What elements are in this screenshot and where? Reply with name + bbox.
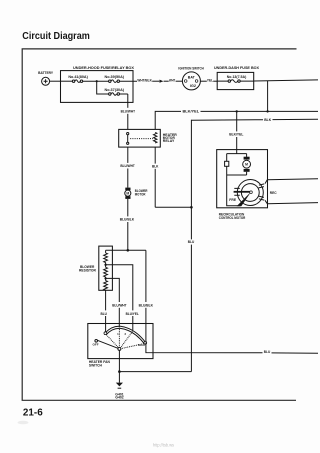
svg-text:BLK/YEL: BLK/YEL: [183, 108, 200, 113]
OFF contact: [95, 340, 98, 343]
relay dashed link: [130, 138, 153, 140]
wire recirc upper exit: [265, 179, 318, 184]
wire BLU/WHT drop to relay: [127, 94, 129, 129]
wire BLK/YEL drop to recirc: [236, 111, 238, 153]
label BLU on vertical: [187, 239, 195, 244]
junction tap2: [104, 277, 106, 279]
resistor R2: [104, 267, 108, 277]
resistor box: [99, 246, 113, 290]
recirc switch outer: [237, 180, 263, 206]
svg-text:BLU/YEL: BLU/YEL: [126, 311, 140, 316]
svg-text:BLU/WHT: BLU/WHT: [120, 163, 135, 168]
fuse No.13(7.5A): [217, 74, 254, 82]
wire relay out down: [127, 147, 129, 188]
svg-text:BLU/WHT: BLU/WHT: [121, 109, 136, 114]
svg-text:YEL: YEL: [207, 78, 214, 83]
svg-text:BLU: BLU: [264, 349, 271, 354]
svg-text:No.39(50A): No.39(50A): [105, 74, 125, 79]
svg-text:WHT: WHT: [169, 78, 176, 83]
dashed ray to colA: [106, 335, 118, 348]
svg-text:No.41(80A): No.41(80A): [68, 74, 88, 79]
contact ticks lower: [259, 196, 265, 200]
switch arc band: [105, 326, 145, 342]
label BLK/YEL: [229, 131, 244, 137]
resistor R3: [104, 281, 108, 291]
wire pivot down: [118, 350, 120, 382]
label BLU/WHT: [120, 108, 136, 114]
svg-text:SWITCH: SWITCH: [89, 362, 102, 367]
wire BLK row: [191, 119, 318, 120]
svg-text:RELAY: RELAY: [163, 138, 175, 143]
wire arrow to WHT: [164, 80, 169, 82]
relay coil: [154, 132, 157, 143]
battery B1: [42, 77, 50, 85]
dashed ray to colC: [121, 332, 133, 348]
wire BLK/YEL row: [155, 111, 318, 129]
wire motor down: [127, 199, 129, 250]
wire ignition to YEL: [200, 80, 206, 82]
wire vertical from BLK row down: [190, 120, 192, 372]
wire fuse41 to fuse39: [83, 80, 109, 82]
wire YEL to under-dash box: [213, 80, 217, 82]
fuse No.37(30A): [105, 87, 125, 96]
svg-text:M: M: [126, 192, 129, 196]
ground G401: [115, 383, 124, 400]
label BLU/BLK: [119, 216, 135, 222]
border frame (open right): [22, 49, 296, 400]
dashed ray to colB: [118, 329, 120, 347]
wire to arrow: [152, 80, 159, 82]
svg-text:UNDER-HOOD FUSE/RELAY BOX: UNDER-HOOD FUSE/RELAY BOX: [73, 65, 134, 70]
wire col D down to MAX: [145, 250, 147, 342]
svg-text:BLU: BLU: [101, 311, 108, 316]
svg-text:BLU/BLK: BLU/BLK: [139, 303, 154, 308]
svg-text:OFF: OFF: [93, 343, 100, 347]
wire R2 to tap2: [105, 277, 107, 281]
contact left end: [104, 332, 107, 335]
relay label: [163, 132, 177, 143]
blower motor label: [135, 188, 148, 196]
svg-text:BLK: BLK: [152, 163, 159, 168]
wire branch down: [97, 81, 109, 94]
fuse No.39(50A): [105, 74, 125, 83]
fan switch label: [89, 359, 110, 367]
label BLU/YEL colC: [125, 310, 140, 316]
recirc label: [219, 211, 246, 219]
label BLK: [151, 163, 159, 168]
junction tap1: [104, 264, 106, 266]
svg-text:No.37(30A): No.37(30A): [105, 87, 125, 92]
recirc switch inner: [241, 184, 259, 202]
connector arrow: [160, 80, 164, 83]
svg-text:IG2: IG2: [190, 84, 196, 88]
svg-text:BLU/BLK: BLU/BLK: [120, 217, 135, 222]
svg-text:BLU/WHT: BLU/WHT: [112, 303, 127, 308]
wire coil bottom down: [154, 147, 156, 207]
wire drop from fuse13 row: [267, 81, 269, 112]
fuse No.41(80A): [68, 74, 88, 83]
recirc motor M2: [243, 154, 251, 175]
wire tap2 right and down: [106, 278, 120, 327]
wire fuse37 to drop: [120, 93, 128, 95]
wire MAX out row: [146, 343, 318, 354]
svg-text:CONTROL MOTOR: CONTROL MOTOR: [219, 215, 246, 220]
svg-text:BLK/YEL: BLK/YEL: [229, 132, 244, 137]
relay box RY1: [119, 129, 161, 147]
FRE contact ticks: [234, 188, 240, 195]
svg-text:WHT/BLK: WHT/BLK: [137, 78, 152, 83]
capacitor C1: [225, 154, 229, 175]
wiper ray to OFF: [97, 340, 118, 348]
scan blob bottom-left: [18, 421, 29, 425]
wire battery to box: [50, 80, 61, 82]
junction ground row: [118, 370, 121, 373]
wiper pivot: [250, 191, 253, 194]
motor loop bottom: [227, 174, 247, 176]
wire R3 to box edge and down to switch: [105, 290, 107, 332]
contact ticks upper: [259, 184, 265, 188]
wire tap1 right and down: [106, 265, 133, 330]
svg-text:IGNITION SWITCH: IGNITION SWITCH: [178, 65, 204, 70]
junction fuse13 drop: [266, 110, 268, 112]
wire ground row to vertical: [119, 371, 191, 373]
wire into fuse 41: [61, 80, 73, 82]
wiper arm horizontal: [234, 191, 250, 193]
svg-text:FRE: FRE: [229, 197, 236, 202]
blower motor M1: [125, 188, 131, 199]
svg-text:BAT: BAT: [188, 75, 195, 79]
label BLU/BLK colD: [138, 302, 154, 308]
resistor R1: [104, 253, 108, 263]
junction node A: [96, 80, 98, 82]
svg-text:RESISTOR: RESISTOR: [79, 267, 96, 272]
svg-text:BATTERY: BATTERY: [38, 70, 53, 75]
svg-text:REC: REC: [270, 190, 277, 195]
wire WHT to ignition switch: [176, 80, 183, 82]
wiper pivot: [118, 347, 121, 350]
resistor label: [79, 264, 96, 272]
wire into chain: [105, 250, 107, 253]
dashed ray to MAX: [121, 344, 144, 349]
junction recirc drop: [236, 110, 238, 112]
relay contact: [127, 133, 129, 145]
svg-text:BLU: BLU: [188, 239, 195, 244]
svg-text:G402: G402: [115, 395, 124, 400]
svg-text:UNDER-DASH FUSE BOX: UNDER-DASH FUSE BOX: [214, 65, 259, 70]
wire R1 to tap1: [105, 263, 107, 268]
fan switch box: [88, 324, 153, 359]
label BLU/WHT below relay: [120, 163, 136, 169]
wire fuse39 to box edge: [120, 80, 138, 82]
under-hood fuse/relay box: [61, 71, 134, 103]
svg-text:M: M: [245, 163, 248, 167]
under-dash fuse box: [217, 72, 254, 89]
wire recirc lower exit: [265, 200, 318, 203]
label BLU/WHT colB: [111, 302, 127, 308]
wiper arm diagonal: [237, 192, 252, 207]
wire tap row: [106, 249, 146, 251]
svg-text:21-6: 21-6: [23, 408, 43, 419]
junction tap row: [127, 249, 130, 252]
svg-text:BLK: BLK: [264, 117, 271, 122]
wire loop to switch: [227, 175, 241, 206]
svg-text:MOTOR: MOTOR: [135, 191, 146, 196]
svg-text:Circuit Diagram: Circuit Diagram: [22, 31, 90, 42]
recirc box: [217, 150, 268, 208]
wire elbow coil to vertical: [155, 206, 191, 208]
ignition switch SW1: [182, 72, 200, 90]
wire fuse13 out to page edge: [254, 80, 318, 81]
label BLU colA: [99, 310, 108, 316]
motor loop top: [227, 153, 247, 155]
contact MAX end: [144, 341, 147, 344]
svg-text:No.13(7.5A): No.13(7.5A): [227, 74, 247, 79]
junction at vertical: [190, 206, 193, 209]
svg-text:MAX: MAX: [138, 343, 145, 347]
svg-text:http://tsb.ws: http://tsb.ws: [153, 442, 174, 447]
